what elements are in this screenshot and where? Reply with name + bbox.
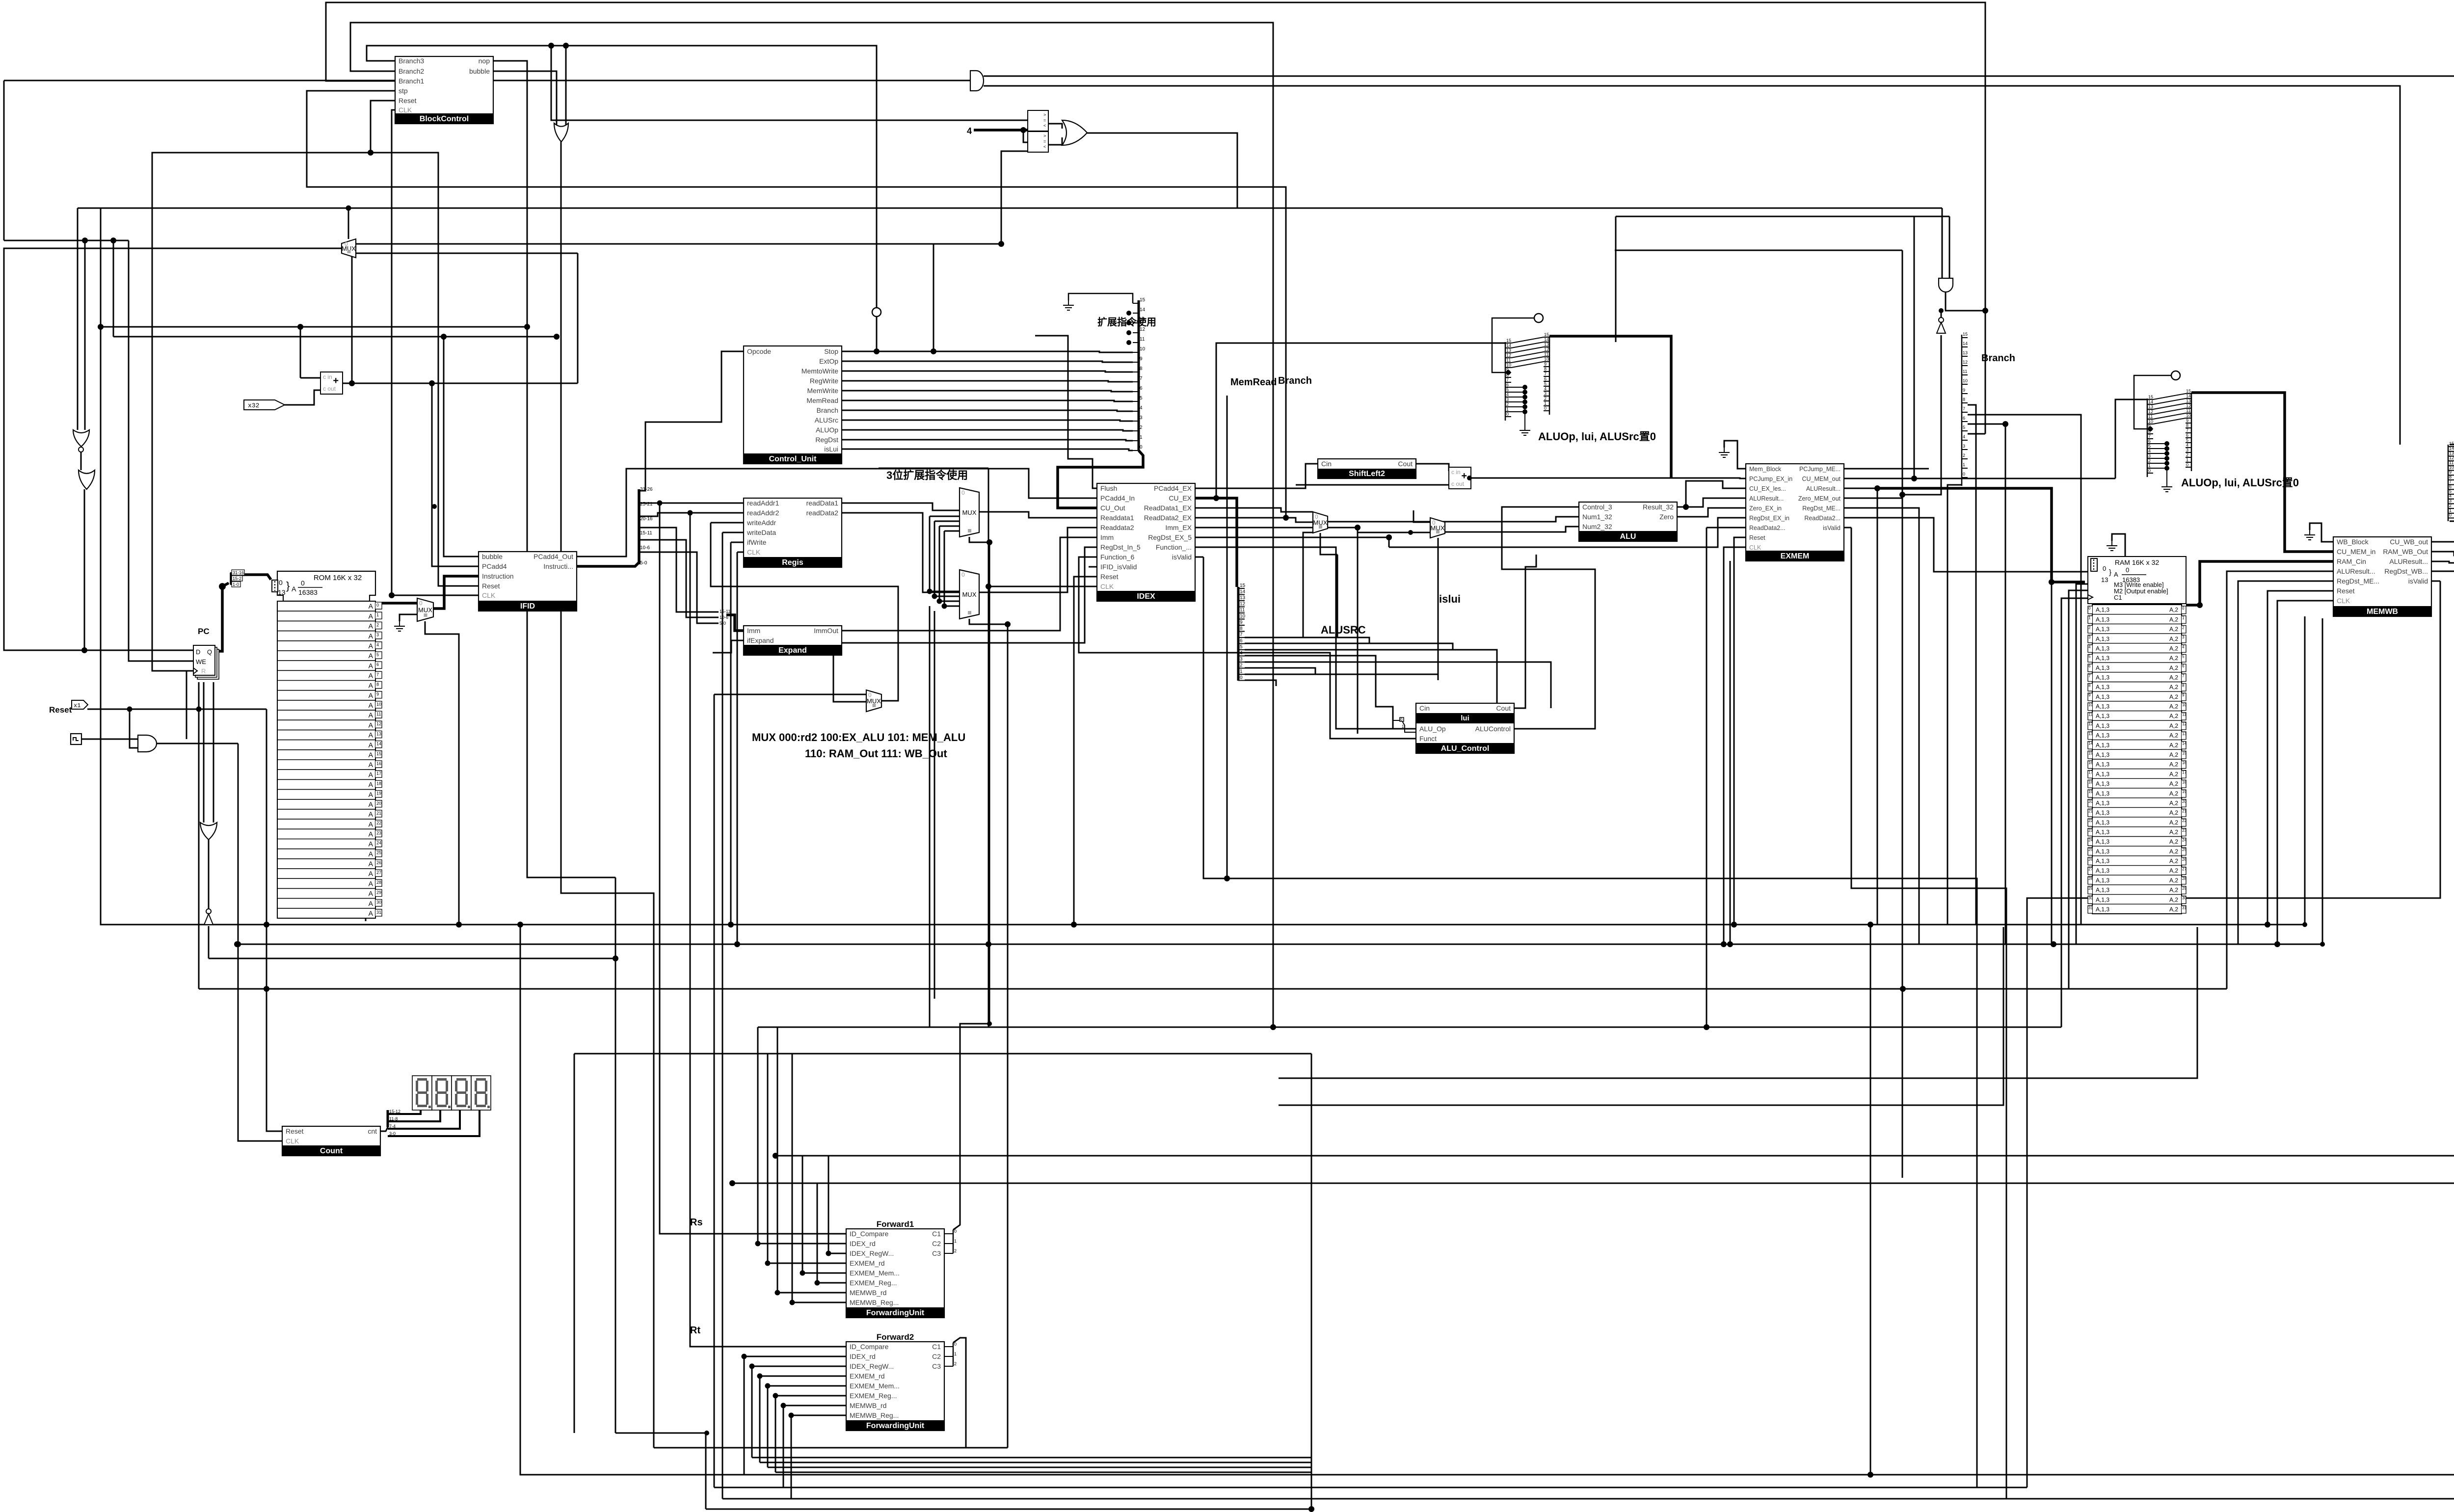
block ShiftLeft2 (1318, 459, 1416, 478)
svg-text:ExtOp: ExtOp (819, 357, 838, 365)
svg-text:9: 9 (1544, 362, 1547, 367)
wire ALUResult into MEMWB (2227, 571, 2333, 989)
svg-text:0: 0 (2449, 513, 2452, 518)
svg-text:2: 2 (1963, 453, 1965, 458)
junction ext bits (1126, 340, 1131, 345)
wire fwd mux A input 1 (934, 521, 960, 522)
wire low bus 2990 (768, 1467, 1311, 1468)
svg-text:30: 30 (2182, 896, 2187, 901)
wire Reset net right (87, 709, 267, 710)
svg-text:ForwardingUnit: ForwardingUnit (866, 1309, 925, 1317)
svg-text:25: 25 (2088, 848, 2093, 852)
svg-text:1: 1 (954, 1239, 957, 1244)
wire circle to ladder bit (1492, 318, 1534, 372)
svg-text:1: 1 (2148, 463, 2151, 468)
svg-text:A,2: A,2 (2169, 829, 2178, 836)
svg-text:10: 10 (2148, 419, 2153, 424)
svg-text:10: 10 (1140, 346, 1146, 352)
svg-text:Instruction: Instruction (482, 572, 514, 580)
svg-text:A: A (369, 642, 373, 650)
svg-text:CU_EX_les...: CU_EX_les... (1749, 485, 1786, 492)
wire PCadd4 into IFID (432, 383, 479, 566)
svg-text:1: 1 (1506, 407, 1509, 412)
wire y424 select net (78, 208, 1942, 209)
wire fwd mux B input 0 (930, 591, 960, 592)
svg-text:15-11: 15-11 (720, 609, 730, 614)
splitter Instruction vertical (638, 489, 640, 564)
unconnected output circle (1534, 314, 1543, 322)
svg-text:A: A (369, 761, 373, 769)
svg-text:13: 13 (1544, 342, 1549, 347)
svg-text:10: 10 (1506, 363, 1511, 368)
svg-text:Control_Unit: Control_Unit (769, 455, 817, 463)
svg-text:A: A (369, 810, 373, 818)
svg-text:A,1,3: A,1,3 (2096, 636, 2109, 642)
svg-text:0: 0 (376, 603, 379, 608)
svg-text:3: 3 (2186, 448, 2188, 452)
svg-text:C1: C1 (932, 1343, 941, 1351)
svg-text:5: 5 (1240, 644, 1243, 650)
svg-text:A,2: A,2 (2169, 722, 2178, 729)
svg-text:12: 12 (1506, 353, 1511, 358)
NOT gate under PC (204, 909, 213, 925)
svg-text:MemWrite: MemWrite (807, 387, 838, 395)
svg-text:9: 9 (2182, 693, 2185, 697)
comparator block 1 (1028, 110, 1048, 131)
wire mux select down (425, 621, 459, 925)
wire mux input from PC+4 adder (356, 253, 578, 254)
EX-stage ALUOp lui ALUSrc zeroing ladder (1505, 342, 1506, 421)
svg-text:14: 14 (2449, 446, 2454, 451)
wire CU output 3 (842, 381, 1133, 382)
wire PC col down to OR G input 2 (213, 682, 214, 822)
wire top AND out long 2 (984, 86, 2400, 445)
svg-text:2: 2 (2449, 503, 2452, 508)
svg-text:ALUSRC: ALUSRC (1321, 624, 1366, 636)
svg-text:IDEX_rd: IDEX_rd (850, 1353, 876, 1360)
svg-text:A,2: A,2 (2169, 751, 2178, 758)
svg-text:EXMEM: EXMEM (1781, 552, 1810, 560)
svg-text:A,1,3: A,1,3 (2096, 751, 2109, 758)
junction ext bits (1126, 320, 1131, 325)
svg-text:isValid: isValid (1172, 553, 1192, 561)
wire into branch AND input B (1949, 216, 1950, 278)
svg-text:5: 5 (2449, 489, 2452, 494)
svg-text:16: 16 (2088, 761, 2093, 765)
wire readdata2 up (1285, 466, 1287, 518)
svg-text:5: 5 (1963, 425, 1965, 430)
wire fwd2 input 5 (783, 1405, 846, 1406)
svg-text:EXMEM_Reg...: EXMEM_Reg... (850, 1279, 897, 1287)
svg-text:4: 4 (967, 126, 972, 136)
wire CU_MEM into MEM ladder (2115, 399, 2147, 478)
svg-text:3: 3 (2449, 498, 2452, 503)
7-segment display x4 (412, 1076, 491, 1110)
wire EX ladder bus to EXMEM (1549, 336, 1671, 478)
register PC (32-bit DFF stack) (193, 645, 219, 679)
svg-text:0: 0 (2186, 462, 2188, 467)
svg-text:Imm: Imm (747, 627, 760, 635)
svg-text:x1: x1 (74, 702, 80, 709)
svg-text:cnt: cnt (368, 1127, 377, 1135)
svg-text:18: 18 (376, 781, 381, 786)
wire bottom bus y3005 (520, 925, 2454, 1475)
svg-text:RegWrite: RegWrite (810, 377, 838, 385)
svg-text:13: 13 (2182, 732, 2187, 736)
svg-text:A: A (369, 860, 373, 868)
svg-text:13: 13 (1240, 595, 1246, 601)
svg-text:22: 22 (376, 821, 381, 825)
svg-text:Reset: Reset (1100, 573, 1119, 581)
wire fwd2 input 2 (760, 1376, 846, 1377)
wire CU_MEM_out up to AND (1843, 216, 1949, 478)
wire instruction MUX out to IFID Instruction (433, 576, 479, 609)
svg-text:A,2: A,2 (2169, 877, 2178, 884)
wire adder cin (300, 377, 320, 379)
junction dots misc (432, 504, 437, 509)
wire x32 to adder (285, 390, 320, 405)
svg-text:A: A (369, 870, 373, 877)
svg-text:}: } (2109, 568, 2111, 577)
svg-text:11: 11 (2088, 713, 2093, 717)
svg-text:10: 10 (2449, 465, 2454, 470)
svg-text:PCadd4: PCadd4 (482, 562, 507, 570)
svg-text:14: 14 (1963, 341, 1968, 346)
IDEX ladder labels (1240, 583, 1246, 681)
svg-text:21: 21 (2182, 809, 2187, 813)
svg-text:14: 14 (376, 742, 381, 746)
wire NOT H to y1953 (208, 926, 210, 958)
svg-text:18: 18 (2182, 780, 2187, 784)
svg-text:A,1,3: A,1,3 (2096, 626, 2109, 633)
wire low bus 3000 (775, 1472, 1311, 1473)
mux writeAddr select (866, 690, 881, 712)
svg-text:EXMEM_Mem...: EXMEM_Mem... (850, 1382, 900, 1390)
svg-text:Rt: Rt (690, 1325, 700, 1336)
svg-text:15: 15 (1506, 338, 1511, 343)
wire fwd2 input 4 (775, 1395, 846, 1397)
svg-text:Reset: Reset (399, 97, 417, 105)
wire ladder low1 (1245, 668, 1315, 674)
svg-text:ifExpand: ifExpand (747, 637, 774, 644)
svg-text:6: 6 (1506, 382, 1509, 387)
wire Instruction bus to splitter (577, 562, 639, 566)
svg-text:0: 0 (1963, 472, 1965, 477)
wire ALUControl to ALU Control_3 (1502, 507, 1579, 555)
wire readData2 to forward mux B (842, 513, 960, 592)
svg-text:RAM_Cin: RAM_Cin (2337, 557, 2366, 565)
svg-text:1: 1 (2449, 508, 2452, 513)
svg-text:0: 0 (1506, 412, 1509, 417)
wire PC clk stub (187, 670, 193, 672)
svg-text:x32: x32 (248, 402, 259, 409)
wire y441 extension (1616, 216, 1914, 217)
block IFID (479, 552, 577, 611)
wire ALUOp bits to ALU_Control (1245, 656, 1393, 729)
svg-text:5: 5 (2186, 438, 2188, 443)
svg-text:14: 14 (1140, 307, 1146, 313)
svg-text:7-4: 7-4 (389, 1124, 396, 1129)
svg-text:11: 11 (1506, 358, 1511, 363)
svg-text:13: 13 (1506, 348, 1511, 353)
svg-text:A,2: A,2 (2169, 664, 2178, 671)
svg-text:10: 10 (2088, 703, 2093, 707)
wire imm bus into Expand (726, 615, 744, 631)
wire clock down to Count CLK (238, 743, 282, 1141)
wire fwd1 input 4 (817, 1282, 846, 1284)
wire writeAddr vertical from bottom (714, 694, 715, 1487)
svg-text:A,1,3: A,1,3 (2096, 896, 2109, 903)
wire adder cin up to y666 (300, 327, 301, 378)
svg-text:A,2: A,2 (2169, 887, 2178, 894)
wire y2920 (615, 1432, 706, 1434)
svg-text:c in: c in (323, 373, 332, 380)
svg-text:PCadd4_Out: PCadd4_Out (533, 553, 573, 560)
svg-text:31: 31 (376, 910, 381, 915)
svg-text:15: 15 (1140, 297, 1146, 303)
svg-text:9: 9 (2088, 693, 2091, 697)
svg-text:1: 1 (1402, 724, 1404, 729)
svg-text:5: 5 (376, 652, 379, 657)
svg-text:3: 3 (1240, 657, 1243, 662)
svg-text:0: 0 (2126, 566, 2129, 574)
wire lui Cout up (1514, 555, 1536, 708)
svg-text:12: 12 (376, 721, 381, 726)
svg-text:Branch: Branch (1278, 375, 1312, 386)
wire islui mux out to Num2_32 (1445, 527, 1579, 532)
svg-text:A,2: A,2 (2169, 906, 2178, 913)
svg-text:2: 2 (2148, 458, 2151, 463)
wire y1953 (209, 958, 615, 959)
wire RegDst_WB down (2432, 571, 2454, 1487)
svg-text:Branch: Branch (1981, 353, 2015, 364)
wire WB value return long 2 (732, 568, 2454, 1183)
wire low bus 2980 (760, 1462, 1311, 1463)
svg-text:25: 25 (376, 850, 381, 855)
mux ALUSrc (1313, 512, 1328, 533)
svg-text:28: 28 (2088, 876, 2093, 881)
wire y2093 (1273, 1027, 2061, 1028)
svg-text:=: = (1043, 118, 1046, 123)
wire bubble output to OR (493, 71, 557, 125)
svg-text:21: 21 (2088, 809, 2093, 813)
svg-text:4: 4 (1963, 434, 1965, 439)
svg-text:A,1,3: A,1,3 (2096, 722, 2109, 729)
svg-text:28: 28 (376, 880, 381, 885)
svg-text:1: 1 (2186, 457, 2188, 462)
wire fwd1 input 3 (802, 1273, 846, 1274)
svg-text:13: 13 (1963, 350, 1968, 355)
svg-text:A: A (369, 820, 373, 828)
svg-text:2: 2 (1240, 663, 1243, 668)
svg-text:Cin: Cin (1419, 704, 1430, 712)
svg-text:A: A (292, 585, 296, 593)
wire vertical x3477 (1706, 528, 1707, 1027)
svg-text:16383: 16383 (298, 588, 318, 596)
svg-text:24: 24 (2182, 838, 2187, 843)
svg-text:2: 2 (954, 1361, 957, 1366)
svg-text:13: 13 (278, 588, 286, 596)
wire 7seg digit4 (388, 1110, 480, 1136)
wire ALUControl out to ALU (1502, 555, 1595, 729)
svg-text:1: 1 (376, 612, 379, 617)
wire RAM data out to MEMWB RAM_Cin (2186, 561, 2333, 605)
svg-text:27: 27 (2088, 867, 2093, 872)
svg-text:A,1,3: A,1,3 (2096, 848, 2109, 855)
svg-text:2: 2 (954, 1248, 957, 1253)
wire select into branch AND (1942, 208, 1943, 278)
svg-text:ReadData1_EX: ReadData1_EX (1144, 504, 1192, 512)
svg-text:A,1,3: A,1,3 (2096, 906, 2109, 913)
svg-text:writeData: writeData (747, 529, 776, 536)
wire lui select bit (1245, 662, 1551, 708)
svg-text:A,1,3: A,1,3 (2096, 858, 2109, 865)
svg-text:0: 0 (2103, 565, 2106, 572)
wire 7seg digit3 (388, 1110, 460, 1129)
wire y490 (4, 240, 129, 241)
wire y686 (113, 336, 557, 338)
OR gate comparator merge (1062, 120, 1087, 145)
wire PC+4 adder out (342, 383, 578, 384)
wire gnd to WB_Block (2310, 523, 2333, 542)
block BlockControl (395, 56, 493, 124)
svg-text:12: 12 (2186, 403, 2191, 408)
svg-text:<: < (1043, 144, 1046, 149)
svg-text:ALUOp, lui, ALUSrc置0: ALUOp, lui, ALUSrc置0 (1538, 430, 1656, 443)
wire RAM C1 clock (2061, 598, 2088, 1027)
wire ALUResult_MEM down to bus (1843, 488, 1877, 925)
svg-text:CU_Out: CU_Out (1100, 504, 1125, 512)
wire CU output 2 (842, 371, 1133, 372)
svg-text:Readdata1: Readdata1 (1100, 514, 1134, 522)
splitter instruction 31-16/15-2/1-0 (231, 570, 244, 587)
wire gnd to RAM top (2112, 534, 2125, 557)
svg-text:isValid: isValid (2408, 577, 2428, 585)
svg-text:EXMEM_Mem...: EXMEM_Mem... (850, 1269, 900, 1277)
svg-text:Branch1: Branch1 (399, 77, 424, 85)
wire left vertical x205 (101, 208, 266, 925)
ROM register stack rows (277, 601, 382, 918)
svg-text:2: 2 (1506, 402, 1509, 407)
svg-text:MEMWB: MEMWB (2367, 608, 2398, 616)
svg-text:8: 8 (2449, 475, 2452, 479)
svg-text:Reset: Reset (482, 582, 500, 590)
svg-text:15: 15 (1240, 583, 1246, 588)
svg-text:Function_6: Function_6 (1100, 553, 1134, 561)
svg-text:14: 14 (1544, 337, 1549, 342)
wire low bus 2970 (752, 1457, 1311, 1459)
svg-text:7: 7 (376, 672, 379, 677)
block Count (282, 1126, 380, 1156)
svg-text:11: 11 (1963, 369, 1967, 374)
svg-text:17: 17 (2182, 770, 2187, 775)
svg-text:31-16: 31-16 (233, 570, 244, 575)
svg-text:7: 7 (2186, 428, 2188, 433)
svg-text:7: 7 (2148, 434, 2151, 439)
wire 20-16 to readAddr2 (639, 513, 744, 516)
svg-text:15-11: 15-11 (640, 531, 652, 536)
svg-text:D: D (196, 648, 200, 656)
wire Branch3 Stop net (367, 46, 877, 312)
wire vertical x3811 (1870, 925, 1871, 1475)
svg-text:23: 23 (2182, 828, 2187, 833)
svg-text:Forward2: Forward2 (877, 1332, 914, 1342)
svg-text:5-0: 5-0 (720, 621, 726, 626)
svg-text:15-12: 15-12 (389, 1109, 400, 1114)
svg-text:2: 2 (1544, 396, 1547, 401)
wire OR G out to NOT H (208, 840, 210, 909)
svg-text:IFID: IFID (520, 602, 535, 610)
svg-text:6: 6 (1963, 416, 1965, 421)
wire 5-0 (639, 552, 719, 623)
RAM register stack rows (2088, 605, 2187, 914)
wire select2 down to fwd2 output bus (1007, 624, 1009, 1448)
svg-text:3: 3 (2088, 635, 2091, 639)
wire circle into ladder top (2450, 425, 2454, 445)
wire writeAddr mux out loop (711, 523, 898, 701)
wire MEMWB Reset (2267, 591, 2333, 925)
svg-text:A,1,3: A,1,3 (2096, 761, 2109, 768)
wire select net down to fwd1 output bus (989, 542, 990, 1024)
svg-text:18: 18 (2088, 780, 2093, 784)
svg-text:13: 13 (2101, 576, 2108, 584)
svg-text:MemtoWrite: MemtoWrite (801, 367, 838, 375)
svg-text:A,1,3: A,1,3 (2096, 829, 2109, 836)
wire opcode 31-26 to Control_Unit (639, 351, 744, 491)
svg-text:Zero_MEM_out: Zero_MEM_out (1798, 495, 1841, 502)
wire bottom bus y3054 (722, 1498, 2454, 1500)
svg-text:MEMWB_rd: MEMWB_rd (850, 1402, 886, 1409)
svg-text:14: 14 (2148, 399, 2153, 404)
svg-text:CU_MEM_out: CU_MEM_out (1802, 476, 1841, 482)
svg-text:A: A (369, 890, 373, 898)
svg-text:ifWrite: ifWrite (747, 538, 767, 546)
svg-text:A,2: A,2 (2169, 607, 2178, 613)
input pin Reset (72, 700, 88, 709)
svg-text:A,1,3: A,1,3 (2096, 674, 2109, 681)
svg-text:29: 29 (2182, 886, 2187, 891)
block ForwardingUnit 1 (846, 1229, 944, 1318)
wire vertical x2672 (1311, 1054, 1312, 1509)
wire fwd mux A select (969, 537, 989, 542)
svg-text:A,2: A,2 (2169, 867, 2178, 874)
wire fwd mux A out to Readdata1 (979, 512, 1097, 518)
svg-text:11: 11 (376, 712, 381, 716)
svg-text:Mem_Block: Mem_Block (1749, 466, 1782, 473)
svg-text:A: A (369, 612, 373, 620)
svg-text:5: 5 (2182, 654, 2185, 659)
svg-text:Opcode: Opcode (747, 347, 771, 355)
wire islui mux input up (1414, 510, 1430, 522)
svg-text:>: > (1043, 112, 1046, 117)
svg-text:CLK: CLK (1100, 583, 1114, 590)
svg-text:3: 3 (1140, 415, 1143, 421)
svg-text:6: 6 (2182, 664, 2185, 668)
wire RegDst_EX to EXMEM (1389, 518, 1746, 547)
wire CU bus to IDEX CU_Out (1058, 451, 1143, 508)
wire y510 extension (1615, 250, 1902, 251)
svg-text:Reset: Reset (2337, 587, 2355, 595)
svg-text:16: 16 (376, 761, 381, 766)
svg-text:Instructi...: Instructi... (543, 562, 573, 570)
wire top AND out long 1 (984, 76, 2454, 428)
svg-text:Forward1: Forward1 (877, 1220, 914, 1229)
NOT gate branch (1937, 318, 1946, 333)
svg-text:A,2: A,2 (2169, 819, 2178, 826)
svg-text:10: 10 (2186, 413, 2191, 418)
svg-text:26: 26 (376, 860, 381, 865)
svg-text:17: 17 (376, 771, 381, 776)
